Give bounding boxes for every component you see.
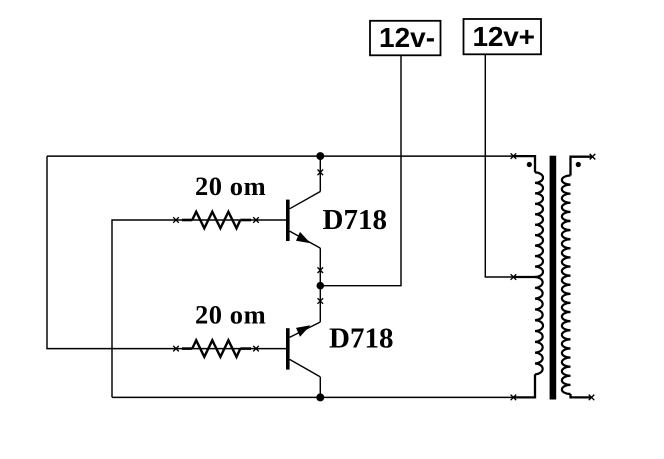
svg-text:12v-: 12v- [379,22,435,53]
svg-text:D718: D718 [323,204,387,236]
svg-text:D718: D718 [329,322,393,354]
svg-text:20 om: 20 om [195,299,266,329]
svg-text:20 om: 20 om [195,171,266,201]
svg-text:12v+: 12v+ [473,21,535,52]
